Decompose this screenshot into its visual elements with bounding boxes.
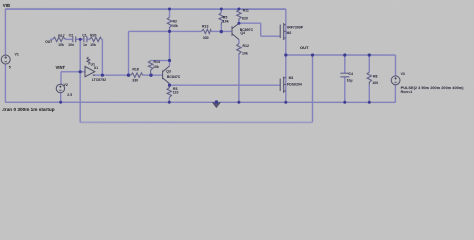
junction dot R14 joins output [149,73,152,76]
junction dot R5 y31.4 [220,30,223,33]
svg-text:5: 5 [9,65,11,69]
junction dot R2 column y31.4 [168,30,171,33]
wire Q4 collector to R12 [238,40,240,44]
resistor R8 100 vertical [367,72,371,85]
wire R3 bottom to ground [168,97,170,102]
svg-text:10k: 10k [172,24,178,28]
svg-text:R2: R2 [173,19,178,23]
svg-text:10n: 10n [68,43,74,47]
resistor R5 10k vertical [219,12,223,25]
junction dot V2 ground [59,101,62,104]
svg-text:330: 330 [132,78,138,82]
svg-text:1n: 1n [83,43,87,47]
wire C4 leads [344,55,346,102]
wire R13 to Q4 base [211,30,232,32]
junction dot R3 ground [168,101,171,104]
wire top rail VtB [5,8,286,10]
svg-text:2.5: 2.5 [67,93,72,97]
wire feedback vertical x=80 [79,39,81,122]
svg-text:R14: R14 [153,60,159,64]
comparator output stub [93,74,95,76]
svg-text:620: 620 [242,17,248,21]
voltage source V1 circle [1,55,10,64]
svg-text:R12: R12 [243,44,249,48]
svg-text:10k: 10k [58,43,64,47]
svg-text:C2: C2 [69,34,74,38]
wire bottom return rail [80,121,312,123]
svg-text:Q3: Q3 [166,70,171,74]
svg-text:LTC6752: LTC6752 [92,78,106,82]
svg-text:100: 100 [372,81,378,85]
svg-text:OUT: OUT [300,45,309,50]
wire V2 bottom [60,93,62,103]
wire VINT horizontal [61,71,85,73]
svg-text:R11: R11 [243,8,249,12]
capacitor C1 1n [84,36,87,42]
junction dot top rail R2 [168,7,171,10]
wire R14 bottom lead [150,73,152,75]
junction dot feedback joins output [101,74,104,77]
comparator supply squiggle [87,57,90,65]
wire chain stub after OUT label [50,38,53,40]
wire Q3 emitter node to M1 gate [169,84,280,86]
wire R2 bottom through to Q3 collector [168,28,170,66]
svg-text:R8: R8 [373,75,378,79]
svg-text:M2: M2 [287,31,292,35]
voltage source V3 circle [391,76,400,85]
svg-text:M1: M1 [289,76,294,80]
svg-text:C4: C4 [348,72,353,76]
svg-text:R17: R17 [58,34,64,38]
svg-text:R20: R20 [90,34,96,38]
svg-text:BC847C: BC847C [167,75,181,79]
svg-text:10µ: 10µ [347,79,353,83]
resistor R11 620 vertical [237,9,241,20]
ground symbol [213,103,220,108]
wire OUT rail [286,54,396,56]
junction dot mosfet OUT [284,53,287,56]
junction dot M2 gate node [237,22,240,25]
wire R14 top link [151,60,170,62]
comparator U1 triangle [85,66,95,76]
wire R12 bottom to ground [238,55,240,103]
svg-text:R13: R13 [202,24,208,28]
wire x=128.5 vertical [127,31,129,75]
wire V3 top drop [394,55,396,76]
junction dot R8 ground [368,101,371,104]
svg-text:V1: V1 [15,52,19,56]
svg-text:.tran 0 300m 1m startup: .tran 0 300m 1m startup [2,107,55,112]
wire gate route of M2 [239,23,280,36]
svg-text:C1: C1 [82,34,87,38]
wire chain C1 to R20 [87,38,90,40]
svg-text:U1: U1 [94,66,98,70]
transistor Q3 BC847C npn [163,66,170,84]
svg-text:10k: 10k [242,52,248,56]
junction dot ground symbol [215,100,218,103]
svg-text:R18: R18 [132,68,138,72]
junction dot C4 OUT [343,53,346,56]
capacitor C2 10n [73,36,76,42]
svg-text:VINT: VINT [55,65,65,70]
junction dot top rail R5 [220,7,223,10]
wire V3 bottom [394,85,396,103]
svg-text:Rser=1: Rser=1 [401,90,413,94]
wire V1 bottom to ground rail [4,64,6,102]
junction dot R14 link [168,59,171,62]
junction dot M1 ground [284,101,287,104]
svg-text:10k: 10k [90,43,96,47]
resistor R3 110 vertical [167,85,171,97]
resistor R14 10k vertical [148,61,152,73]
junction dot top rail R11 [237,8,240,11]
resistor R18 330 horizontal [131,73,143,77]
resistor R13 330 horizontal [202,29,212,33]
junction dot Q3 emitter [168,84,171,87]
wire R11 leads [238,9,240,23]
wire chain C2 to C1 [76,38,83,40]
junction dot R8 OUT [368,53,371,56]
wire R2 top lead [169,9,171,17]
svg-text:330: 330 [203,36,209,40]
resistor R12 10k vertical [237,43,241,54]
junction dot x128.5 joins output [127,73,130,76]
svg-text:FDS6294: FDS6294 [287,83,302,87]
svg-text:Q4: Q4 [240,31,245,35]
transistor Q4 BC857C pnp [232,23,239,39]
wire comparator output [93,74,130,76]
resistor R2 10k vertical [167,17,171,29]
wire chain corner down to comparator output [100,39,103,75]
junction dot R12 ground [237,101,240,104]
svg-text:OUT: OUT [45,40,52,44]
svg-text:V3: V3 [401,72,405,76]
svg-text:110: 110 [173,90,179,94]
resistor R20 10k horizontal [90,37,102,41]
voltage source V2 circle [56,84,64,92]
svg-text:10k: 10k [223,19,229,23]
capacitor C4 10u [340,73,349,77]
wire y=31.4 horizontal [129,30,202,32]
junction dot VINT tap x80 [79,70,82,73]
mosfet M1 FDS6294 nmos [280,77,286,94]
wire left drop to V1 [4,9,6,55]
svg-text:IRF7309P: IRF7309P [287,25,303,29]
wire ground rail [5,101,395,103]
wire R8 leads [368,55,370,102]
wire Q3 emitter down to node [168,84,170,86]
wire R5 leads [220,9,222,32]
wire chain R17 to C2 [66,38,73,40]
junction dot C4 ground [343,101,346,104]
wire mosfet column [285,9,287,102]
wire VINT corner down to V2 [60,72,62,85]
junction dot OUT return [311,53,314,56]
svg-text:V2: V2 [63,83,67,87]
mosfet M2 IRF7309 pmos [280,23,286,40]
wire OUT return vertical [311,55,313,122]
resistor R17 10k horizontal [53,37,66,41]
svg-text:VtB: VtB [3,3,10,8]
svg-text:10k: 10k [153,65,159,69]
wire R18 to Q3 base [143,74,163,76]
junction dot chain tap x80 [79,38,82,41]
